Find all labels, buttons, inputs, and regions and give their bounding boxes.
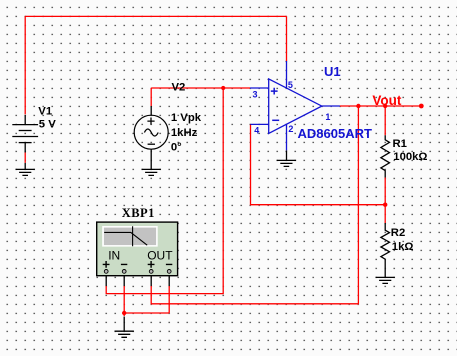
svg-text:1kHz: 1kHz — [171, 127, 198, 139]
svg-text:1 Vpk: 1 Vpk — [171, 112, 202, 124]
svg-text:IN: IN — [108, 249, 120, 263]
svg-text:2: 2 — [288, 124, 293, 134]
svg-text:5: 5 — [288, 80, 293, 90]
svg-text:5 V: 5 V — [39, 118, 56, 130]
svg-text:V1: V1 — [38, 106, 52, 118]
svg-text:U1: U1 — [324, 64, 341, 79]
svg-text:1kΩ: 1kΩ — [392, 241, 414, 253]
svg-text:XBP1: XBP1 — [122, 206, 155, 220]
svg-text:R2: R2 — [391, 227, 405, 239]
svg-text:Vout: Vout — [372, 93, 401, 108]
svg-text:1: 1 — [325, 112, 330, 122]
svg-text:OUT: OUT — [147, 249, 173, 263]
svg-text:100kΩ: 100kΩ — [393, 151, 427, 163]
svg-text:3: 3 — [253, 90, 258, 100]
svg-text:V2: V2 — [172, 82, 186, 94]
svg-text:AD8605ART: AD8605ART — [298, 126, 372, 141]
svg-text:4: 4 — [254, 126, 259, 136]
svg-text:0°: 0° — [171, 142, 182, 154]
svg-text:R1: R1 — [393, 138, 407, 150]
